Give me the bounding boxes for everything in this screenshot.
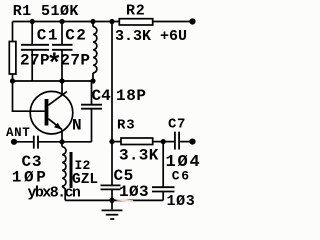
transistor Q1 emitter stroke: [48, 119, 61, 130]
antenna terminal dot: [11, 139, 17, 145]
wire emitter vertical: [61, 130, 63, 142]
transistor Q1 emitter arrow: [54, 123, 62, 130]
wire from R1 bottom down to base corner and base lead: [13, 74, 45, 111]
capacitor C5 bottom lead: [111, 190, 113, 200]
wire top rail left: [13, 21, 120, 23]
svg-text:I2: I2: [75, 158, 91, 173]
capacitor C5 plates: [101, 185, 121, 189]
svg-text:1Ø3: 1Ø3: [167, 193, 196, 210]
ground bar 2: [106, 214, 119, 216]
svg-text:C2: C2: [65, 26, 87, 44]
resistor R2 body: [119, 19, 152, 25]
junction node R1 bottom: [10, 78, 15, 83]
ground bar 3: [110, 218, 114, 220]
capacitor C2 plates: [52, 45, 73, 50]
svg-text:27P: 27P: [20, 52, 50, 70]
wire collector rail y81: [13, 80, 94, 82]
capacitor C1 bottom lead: [31, 51, 33, 82]
wire ANT to C3: [14, 141, 34, 143]
inductor I2 core bar: [70, 152, 73, 188]
junction node collector: [59, 78, 64, 83]
capacitor C4 bottom lead: [91, 109, 93, 142]
capacitor C4 plates: [81, 105, 102, 109]
watermark pink streak: [117, 200, 134, 202]
junction node supply top: [109, 19, 114, 24]
capacitor C7 plates: [175, 132, 179, 150]
wire C3 to C4 lead along emitter rail: [38, 141, 91, 143]
svg-text:1Ø4: 1Ø4: [166, 153, 202, 172]
wire left vertical from top rail to R1: [12, 22, 14, 42]
resistor R3 left stub: [112, 141, 121, 143]
wire top rail right to +6V terminal: [153, 21, 193, 23]
inductor L1 bottom lead: [92, 73, 94, 81]
ground stem: [111, 200, 113, 209]
junction node L1 top: [90, 19, 95, 24]
capacitor C6 bottom lead: [162, 192, 164, 200]
svg-text:R1 51ØK: R1 51ØK: [13, 3, 79, 20]
resistor R1 body: [9, 42, 16, 75]
inductor L1 top lead: [92, 22, 94, 27]
wire C2 bottom lead / collector vertical: [61, 51, 63, 96]
transistor Q1 collector stroke: [48, 92, 66, 106]
junction node R3 left: [109, 139, 114, 144]
svg-text:1Ø3: 1Ø3: [119, 183, 149, 201]
capacitor C3 plates: [34, 136, 38, 149]
svg-text:C7: C7: [168, 116, 186, 132]
wire supply vertical x112: [111, 22, 113, 142]
inductor I2 bottom lead: [62, 186, 65, 200]
capacitor C1 plates: [21, 45, 49, 50]
svg-text:N: N: [72, 117, 82, 135]
svg-text:C1: C1: [37, 26, 59, 44]
wire C7 right plate to output terminal: [180, 141, 193, 143]
inductor I2 coil: [62, 147, 66, 186]
wire C7 junction to left plate: [163, 141, 174, 143]
svg-text:C4: C4: [92, 87, 112, 105]
svg-text:3.3K +6U: 3.3K +6U: [115, 28, 187, 45]
transistor Q1 circle: [30, 91, 73, 134]
svg-text:3.3K: 3.3K: [119, 147, 159, 165]
wire R3 to C7 junction: [153, 141, 163, 143]
capacitor C2 top lead: [61, 22, 63, 45]
junction node L1 bottom: [90, 78, 95, 83]
capacitor C6 plates: [152, 187, 175, 191]
junction node emitter: [59, 139, 64, 144]
svg-text:ANT: ANT: [6, 126, 30, 140]
svg-text:18P: 18P: [116, 87, 147, 105]
wire bottom rail: [65, 199, 163, 201]
resistor R3 body: [121, 138, 153, 145]
capacitor C4 top lead: [91, 81, 93, 104]
junction node ground: [109, 198, 114, 203]
junction node C1 top: [30, 19, 35, 24]
svg-text:R3: R3: [117, 118, 135, 134]
ground bar 1: [102, 209, 123, 211]
inductor L1 coil: [93, 27, 97, 73]
capacitor C6 top lead: [162, 142, 164, 187]
junction node C2 top: [59, 19, 64, 24]
terminal output dot: [189, 139, 195, 145]
svg-text:R2: R2: [126, 3, 146, 20]
transistor Q1 base bar: [45, 99, 49, 126]
inductor I2 top lead: [61, 142, 63, 147]
svg-text:27P: 27P: [60, 52, 90, 70]
capacitor C5 top lead: [111, 142, 113, 185]
junction node C7 left: [161, 139, 166, 144]
capacitor C1 top lead: [31, 22, 33, 45]
svg-text:ybx8.cn: ybx8.cn: [28, 184, 81, 201]
terminal +6V dot: [189, 18, 195, 24]
